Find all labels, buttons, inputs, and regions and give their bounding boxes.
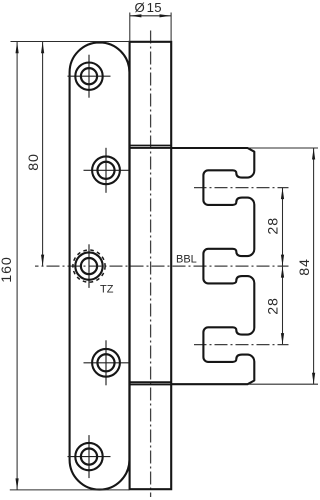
extension line top (for 160/80) (11, 41, 130, 43)
dimension 28 upper line (282, 188, 284, 266)
screw hole 1 (68, 55, 111, 98)
hinge barrel (130, 42, 172, 489)
svg-text:Ø15: Ø15 (134, 0, 161, 15)
extension line 84 bottom (249, 383, 318, 385)
screw hole 5 (68, 435, 111, 478)
barrel centerline (vertical dash-dot) (150, 31, 152, 498)
diameter 15 dimension line (130, 15, 171, 17)
svg-text:160: 160 (0, 256, 15, 282)
screw hole 3 (with TZ serration ring) (73, 244, 105, 288)
dimension 80 line (42, 42, 44, 266)
svg-text:80: 80 (26, 153, 42, 171)
BBL centerline (horizontal dash-dot) (35, 265, 289, 267)
extension line 84 top (249, 147, 318, 149)
dimension 84 line (313, 148, 315, 384)
screw hole 2 (84, 148, 129, 193)
diameter 15 extension lines (129, 13, 131, 41)
dimension 160 line (16, 42, 18, 490)
cutout 1 centerline (194, 187, 289, 189)
svg-text:BBL: BBL (176, 253, 197, 265)
barrel knuckle break (bottom) (130, 381, 172, 383)
svg-text:TZ: TZ (100, 283, 114, 295)
extension line bottom (for 160) (10, 489, 130, 491)
screw hole 4 (84, 340, 129, 385)
door leaf (stadium outline) (70, 42, 130, 489)
dimension 28 lower line (282, 266, 284, 344)
cutout 3 centerline (194, 344, 289, 346)
svg-text:28: 28 (265, 217, 281, 235)
svg-text:28: 28 (265, 297, 281, 315)
svg-text:84: 84 (297, 258, 313, 276)
frame part comb outline (171, 148, 254, 384)
barrel knuckle break (top) (130, 145, 172, 147)
